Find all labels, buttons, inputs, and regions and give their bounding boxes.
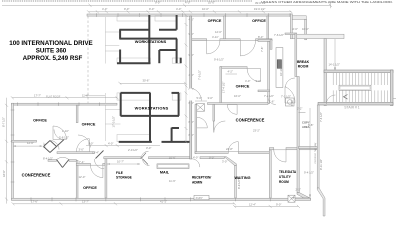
svg-text:2'-2": 2'-2" [297, 107, 302, 111]
conference L east wall [76, 160, 78, 199]
door leaf corridor SE [96, 151, 104, 159]
corridor wall to break area [258, 40, 272, 42]
corridor wall A [57, 152, 94, 154]
svg-text:1'-10": 1'-10" [62, 129, 69, 133]
svg-text:9'-6 1/2": 9'-6 1/2" [214, 58, 224, 62]
top exterior wall [87, 14, 292, 16]
small arc office2 area [94, 159, 104, 169]
bottom exterior wall [12, 198, 311, 200]
left vertical dim line [5, 98, 8, 204]
wall stubs conference entry [48, 160, 57, 162]
office3 east wall / file storage west [105, 157, 107, 200]
svg-text:8'-4 1/2": 8'-4 1/2" [43, 156, 53, 160]
svg-text:12'-4": 12'-4" [92, 150, 99, 154]
svg-text:100 INTERNATIONAL DRIVE: 100 INTERNATIONAL DRIVE [9, 40, 92, 47]
dimension line row A [2, 3, 332, 8]
svg-text:1'-6": 1'-6" [269, 100, 274, 104]
svg-text:4'-0": 4'-0" [108, 142, 113, 146]
svg-text:13'-7": 13'-7" [82, 200, 89, 204]
stair treads lower flight [333, 90, 387, 102]
svg-text:9'-0": 9'-0" [155, 0, 160, 4]
double door at corridor B [141, 153, 148, 165]
workstation cluster 1 partitions [117, 15, 181, 64]
svg-text:30'-6": 30'-6" [143, 79, 150, 83]
svg-text:7'-1 1/2": 7'-1 1/2" [264, 94, 274, 98]
stair treads upper flight [333, 73, 387, 85]
conference closet door [213, 121, 215, 133]
stair inner outline [327, 73, 391, 103]
svg-text:5'-8 1/2": 5'-8 1/2" [59, 136, 69, 140]
stair enclosure right wall [390, 70, 393, 106]
chase cabinet [276, 48, 283, 88]
corridor south wall B left [104, 157, 141, 159]
waiting west wall [235, 166, 237, 200]
svg-text:9'-0": 9'-0" [276, 202, 281, 206]
conference closet wall [213, 105, 215, 122]
svg-text:STAIR # 1: STAIR # 1 [344, 106, 360, 110]
svg-text:12'-0": 12'-0" [79, 175, 86, 179]
office B east wall [267, 16, 269, 41]
conference R north door arc [227, 105, 237, 115]
tele/data north wall [269, 148, 274, 150]
svg-text:7'-6 1/2": 7'-6 1/2" [274, 33, 284, 37]
svg-text:WORKSTATIONS: WORKSTATIONS [135, 39, 167, 44]
top cutoff text line [2, 0, 252, 2]
svg-text:OFFICE: OFFICE [208, 19, 222, 23]
top-right vertical wall [305, 19, 307, 39]
mail counter [157, 164, 189, 169]
conference R north wall [208, 103, 269, 105]
svg-text:17'-3 1/2": 17'-3 1/2" [112, 116, 116, 127]
svg-text:8'-3": 8'-3" [258, 35, 263, 39]
vertical dim line right of workstations [185, 14, 188, 143]
break room doors arcs [285, 78, 295, 88]
stair dim line [334, 39, 336, 71]
dim row mid left [86, 145, 160, 147]
office3 north wall [76, 163, 90, 165]
dim 17'-7" / FLAT ROOF / 11'-6" [12, 97, 117, 99]
workstation cluster 2 partitions [119, 93, 190, 142]
svg-text:MAIL: MAIL [160, 171, 170, 175]
corridor south wall B right [149, 157, 190, 159]
suite boundary dashed line left [87, 16, 89, 104]
svg-text:OFFICE: OFFICE [33, 119, 47, 123]
svg-text:16'-0": 16'-0" [234, 94, 241, 98]
svg-text:CONFERENCE: CONFERENCE [236, 117, 265, 122]
suite east wall diagonal end [297, 193, 311, 201]
svg-text:17'-7": 17'-7" [34, 93, 41, 97]
stair center rail [339, 85, 371, 90]
stair direction arrow [344, 95, 348, 100]
demising wall [190, 16, 192, 159]
stair enclosure bottom wall [318, 102, 393, 105]
conference R south wall [195, 152, 228, 154]
svg-text:UTILITY: UTILITY [279, 175, 292, 179]
suite east wall [297, 77, 299, 193]
svg-text:4'-0": 4'-0" [176, 7, 181, 11]
svg-text:12'-6": 12'-6" [27, 141, 34, 145]
svg-text:10'-1/2": 10'-1/2" [279, 67, 283, 76]
svg-text:3'-0": 3'-0" [222, 160, 227, 164]
safe box 3'x3' [194, 195, 209, 199]
svg-text:4'-0": 4'-0" [185, 0, 190, 4]
svg-text:10'-0": 10'-0" [302, 27, 309, 31]
offices front wall segments [192, 39, 207, 41]
svg-text:FLAT ROOF: FLAT ROOF [46, 94, 61, 98]
middle office west wall [220, 67, 222, 104]
svg-text:4'-0": 4'-0" [193, 155, 198, 159]
office2 door arc [78, 135, 90, 147]
west exterior wall [12, 103, 14, 200]
svg-text:9'-11 1/2": 9'-11 1/2" [319, 159, 323, 170]
stair door arc [326, 95, 335, 104]
break room west wall upper [295, 33, 297, 77]
corridor B west door arcs [192, 159, 200, 167]
svg-text:4'-0": 4'-0" [102, 7, 107, 11]
mid dim 30'-6" [120, 82, 186, 84]
conference R west wall [195, 105, 197, 154]
svg-text:SUITE 360: SUITE 360 [36, 47, 67, 54]
svg-text:9'-0": 9'-0" [209, 155, 214, 159]
svg-text:3'-0": 3'-0" [146, 146, 151, 150]
svg-text:APPROX. 5,249 RSF: APPROX. 5,249 RSF [23, 55, 83, 62]
svg-text:7'-0 1/2": 7'-0 1/2" [198, 70, 202, 80]
svg-text:39'-6 1/2": 39'-6 1/2" [255, 1, 266, 5]
dimension line row B [87, 10, 293, 13]
office A door [207, 41, 220, 54]
window mullion ticks top wall [97, 13, 291, 17]
top-right lower wall band [292, 16, 306, 20]
svg-text:8'-7 1/2": 8'-7 1/2" [2, 117, 6, 127]
svg-text:9'-0": 9'-0" [256, 79, 261, 83]
svg-text:UNLESS OTHER ARRANGEMENTS ARE: UNLESS OTHER ARRANGEMENTS ARE MADE WITH … [261, 0, 393, 4]
svg-text:23'-2": 23'-2" [253, 128, 260, 132]
svg-text:2'-6": 2'-6" [293, 27, 298, 31]
conference double door V [57, 160, 69, 168]
svg-text:OFFICE: OFFICE [252, 19, 266, 23]
svg-text:24'-8": 24'-8" [226, 147, 233, 151]
tele/data door arc [274, 150, 286, 162]
middle office door [247, 68, 260, 81]
svg-text:9'-0": 9'-0" [149, 7, 154, 11]
svg-text:WORKSTATIONS: WORKSTATIONS [135, 105, 169, 110]
svg-text:11'-6": 11'-6" [169, 179, 176, 183]
stub right of stair [393, 98, 396, 100]
svg-text:17'-4 1/2": 17'-4 1/2" [221, 82, 225, 93]
break room west wall stub top [285, 33, 295, 35]
svg-text:FILE: FILE [116, 171, 123, 175]
wall stub at office SE [258, 90, 270, 92]
bottom dim line right [233, 205, 300, 208]
office B door [240, 41, 255, 56]
svg-text:4'-2": 4'-2" [228, 70, 233, 74]
svg-text:ROOM: ROOM [298, 65, 309, 69]
svg-text:STORAGE: STORAGE [116, 176, 132, 180]
floor box bottom right [288, 195, 295, 202]
corridor wall B right of demising [200, 157, 224, 159]
svg-text:10'-0": 10'-0" [202, 7, 209, 11]
reception angled wall [224, 157, 236, 166]
svg-text:7'-6": 7'-6" [260, 47, 264, 52]
door diamond cluster [44, 140, 65, 153]
svg-text:OFFICE: OFFICE [83, 186, 97, 190]
tele/data west wall [269, 150, 271, 200]
svg-text:12'-4": 12'-4" [249, 202, 256, 206]
svg-text:WAITING: WAITING [234, 176, 250, 180]
bottom dim line left [12, 202, 237, 205]
svg-text:5'-0": 5'-0" [88, 142, 93, 146]
svg-text:ADMIN: ADMIN [192, 180, 203, 184]
hallway wall jog [317, 188, 325, 216]
workstation cluster 2 desks (light) [105, 93, 181, 142]
svg-text:12'-6": 12'-6" [215, 30, 222, 34]
svg-text:8'-9 1/2": 8'-9 1/2" [237, 179, 241, 189]
corridor door arc to break area [268, 96, 276, 104]
top-right wall jog [290, 14, 292, 39]
stair enclosure top wall [324, 70, 393, 73]
svg-text:3'-0": 3'-0" [79, 148, 84, 152]
wall below copy area [299, 147, 318, 149]
svg-text:TELE/DATA: TELE/DATA [279, 170, 297, 174]
svg-text:10'-0": 10'-0" [208, 0, 215, 4]
svg-text:10'-0": 10'-0" [169, 155, 176, 159]
corridor door arcs mid [76, 139, 89, 152]
hall junction floor box [196, 104, 205, 112]
right vertical dim to bottom [309, 108, 311, 198]
svg-text:OFFICE: OFFICE [236, 84, 250, 88]
drinking fountain [286, 98, 295, 106]
left window wall lower block [12, 103, 118, 105]
chase dark box [277, 60, 281, 69]
svg-text:11'-6": 11'-6" [82, 93, 89, 97]
demising door arc [192, 89, 202, 101]
office1 door arc [53, 126, 67, 140]
office1 south wall [12, 140, 37, 142]
svg-text:common hallway: common hallway [313, 142, 317, 163]
svg-text:9'-4 1/2": 9'-4 1/2" [304, 171, 314, 175]
svg-text:CONFERENCE: CONFERENCE [22, 172, 51, 177]
svg-text:4'-0": 4'-0" [245, 79, 250, 83]
office3 door arc [91, 165, 103, 177]
corridor west wall stub [270, 40, 272, 50]
middle office east wall [268, 42, 270, 104]
svg-text:14'-1 1/2": 14'-1 1/2" [329, 63, 340, 67]
svg-text:RECEPTION/: RECEPTION/ [192, 176, 211, 180]
wall between offices A/B [224, 16, 226, 41]
svg-text:4'-11": 4'-11" [212, 35, 219, 39]
copy area shelf line [299, 112, 306, 114]
dim stub left [85, 95, 105, 97]
wall between office1/office2 [76, 105, 78, 123]
hallway east wall [317, 105, 319, 188]
svg-text:OFFICE: OFFICE [82, 122, 96, 126]
svg-text:9'-0": 9'-0" [124, 7, 129, 11]
svg-text:6'-8": 6'-8" [308, 123, 313, 127]
svg-text:41'-1": 41'-1" [160, 200, 167, 204]
conference R west door arc [197, 117, 208, 128]
conference R south door arc [228, 142, 238, 152]
svg-text:17'-6": 17'-6" [31, 200, 38, 204]
svg-text:3'-0": 3'-0" [208, 96, 213, 100]
svg-text:ROOM: ROOM [279, 180, 289, 184]
middle office top wall [220, 67, 247, 69]
workstation cluster 1 desks (light) [105, 16, 181, 64]
svg-text:2'-0 1/2": 2'-0 1/2" [128, 148, 138, 152]
break room east wall [324, 39, 326, 106]
svg-text:19'-6 1/2": 19'-6 1/2" [254, 7, 265, 11]
svg-text:3'x3'0": 3'x3'0" [196, 197, 203, 200]
svg-text:BREAK: BREAK [297, 60, 310, 64]
svg-text:2'-2": 2'-2" [296, 188, 301, 192]
exterior wall above stair [292, 34, 344, 38]
svg-text:10'-7": 10'-7" [117, 160, 124, 164]
svg-text:7'-4 1/2": 7'-4 1/2" [319, 112, 323, 122]
svg-text:18'-6": 18'-6" [2, 170, 6, 177]
